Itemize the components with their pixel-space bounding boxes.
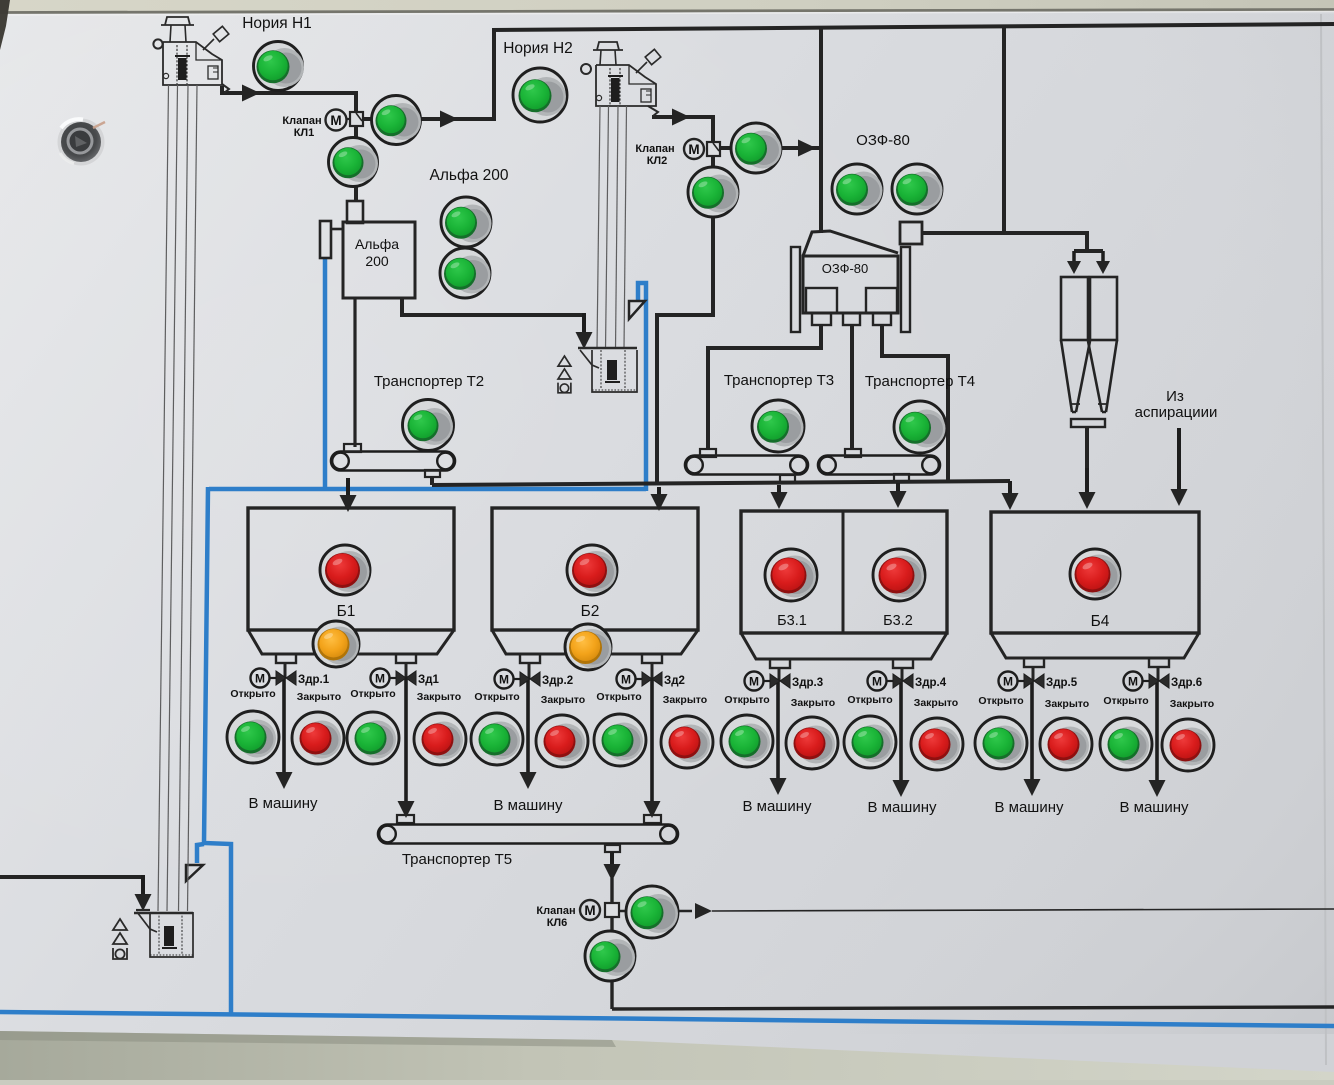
wire: KL6 line down (610, 878, 613, 1009)
svg-text:M: M (621, 673, 631, 687)
H1 elevator legs (158, 85, 197, 911)
arrow aspiration drop (1177, 428, 1181, 491)
wire: KL2 valve to OZF-80 (719, 146, 821, 150)
green lamp Транспортер Т2 (403, 400, 454, 451)
svg-text:Здр.3: Здр.3 (792, 677, 823, 689)
wire: top distribution line (492, 24, 1334, 30)
wire: KL6 to right edge (619, 910, 692, 913)
conveyor T4 (818, 456, 940, 475)
conveyor T5 (378, 825, 678, 844)
svg-text:Закрыто: Закрыто (297, 691, 341, 703)
svg-text:Зд1: Зд1 (418, 674, 440, 686)
svg-text:Б4: Б4 (1091, 613, 1110, 630)
panel lock (58, 119, 105, 166)
Alfa 200 machine box (343, 222, 415, 298)
arrow into H1 boot (141, 875, 145, 896)
wire Здр.2 to machine (528, 663, 531, 679)
arrow into bin B2 (657, 487, 661, 496)
green lamp Открыто Здр.6 (1100, 718, 1152, 770)
dark top-left corner (0, 0, 10, 50)
motor-valve Зд2 (617, 670, 685, 689)
svg-text:КЛ6: КЛ6 (547, 917, 568, 929)
bottom shelf below panel (0, 1031, 1334, 1080)
red lamp Закрыто Здр.6 (1162, 719, 1214, 771)
svg-text:M: M (1128, 675, 1138, 689)
svg-text:Закрыто: Закрыто (914, 697, 958, 709)
svg-text:Открыто: Открыто (350, 688, 395, 700)
T5 discharge (605, 845, 620, 852)
svg-text:В машину: В машину (994, 799, 1064, 816)
arrow В машину Здр.6 (1155, 681, 1159, 782)
H2 elevator legs (597, 106, 627, 349)
arrow into bin B3.2 (896, 483, 900, 493)
orange lamp bin Б2 level (565, 624, 612, 670)
red lamp bin Б4 (1070, 549, 1120, 599)
arrow В машину Здр.2 (526, 679, 530, 774)
svg-text:аспирациии: аспирациии (1135, 404, 1218, 421)
bin outlet neck Здр.1 (276, 654, 296, 663)
wire Здр.1 to machine (284, 663, 287, 678)
svg-text:В машину: В машину (248, 795, 318, 812)
wire: top line to OZF feed (819, 28, 823, 233)
blue duct horizontal run (209, 487, 646, 492)
blue stub to H1 boot chute (197, 844, 204, 863)
svg-text:Б3.1: Б3.1 (777, 613, 807, 629)
wire: Alfa-200 to Noria H2 boot (402, 298, 584, 315)
wall strip above panel (0, 0, 1334, 12)
conveyor T2 (331, 452, 455, 471)
wire: Alfa-200 to transporter T2 (353, 298, 356, 447)
red lamp Закрыто Зд1 (414, 713, 466, 765)
wire: Noria H2 discharge to KL2 (652, 117, 713, 485)
green lamp Открыто Здр.2 (471, 713, 523, 765)
red lamp Закрыто Здр.1 (292, 712, 344, 764)
bin outlet neck Зд2 (642, 654, 662, 663)
green lamp H1 line 2 (329, 138, 379, 187)
svg-text:Закрыто: Закрыто (417, 691, 461, 703)
svg-text:M: M (1003, 675, 1013, 689)
wire Здр.4 to machine (901, 668, 904, 681)
motor-valve Зд1 (371, 669, 440, 688)
motor-valve Здр.6 (1124, 672, 1203, 691)
wire: OZF outlet 2 to T4 (850, 325, 854, 449)
svg-text:Открыто: Открыто (978, 695, 1023, 707)
arrow В машину Здр.1 (282, 678, 286, 774)
arrow В машину Здр.5 (1030, 681, 1034, 781)
bin outlet neck Зд1 (396, 654, 416, 663)
blue bottom border duct (0, 1012, 1334, 1026)
svg-text:M: M (375, 672, 385, 686)
svg-text:200: 200 (365, 253, 389, 269)
chute flag at blue riser (629, 301, 645, 319)
svg-text:M: M (499, 673, 509, 687)
arrow into cyclone 2 (1101, 251, 1105, 263)
svg-text:Закрыто: Закрыто (1170, 698, 1214, 710)
svg-text:Альфа: Альфа (355, 236, 399, 252)
Alfa 200 inlet pocket (347, 201, 363, 223)
bucket elevator Noria H2 (581, 42, 661, 116)
wire Зд2 to T5 (651, 663, 654, 679)
right panel edge (1321, 14, 1326, 1065)
Noria H1 boot (134, 910, 193, 957)
svg-text:Зд2: Зд2 (664, 675, 685, 687)
svg-text:Б2: Б2 (581, 603, 600, 620)
conveyor T3 (685, 456, 808, 475)
orange lamp bin Б1 level (313, 621, 359, 667)
bin outlet neck Здр.6 (1149, 658, 1169, 667)
T5 mount feet (397, 815, 414, 823)
svg-text:ОЗФ-80: ОЗФ-80 (822, 261, 869, 276)
wire Здр.6 to machine (1157, 667, 1160, 681)
green lamp Клапан КЛ2 (731, 123, 782, 173)
wire: T2 discharge drop (430, 477, 434, 485)
green lamp Альфа 200 - 2 (440, 248, 491, 298)
green lamp Транспортер Т4 (894, 401, 946, 453)
svg-text:Б1: Б1 (337, 603, 356, 620)
green lamp Клапан КЛ6 (626, 886, 678, 938)
arrow into bin B4 (1008, 481, 1012, 495)
arrow cyclone drop (1085, 468, 1089, 494)
cyclone pair (1061, 277, 1117, 427)
wire: bottom return line (612, 1007, 1334, 1009)
svg-text:Клапан: Клапан (536, 905, 575, 917)
svg-text:M: M (330, 113, 341, 128)
bin B2 (492, 508, 698, 630)
svg-text:КЛ1: КЛ1 (294, 127, 315, 139)
svg-text:M: M (872, 675, 882, 689)
wire Здр.5 to machine (1032, 667, 1035, 681)
Alfa 200 flag link (331, 228, 343, 231)
svg-text:M: M (688, 142, 699, 157)
valve KL1: M + box (326, 110, 347, 131)
green lamp Открыто Здр.5 (975, 717, 1027, 769)
motor-valve Здр.4 (868, 672, 947, 691)
svg-text:КЛ2: КЛ2 (647, 155, 668, 167)
svg-text:Закрыто: Закрыто (663, 694, 707, 706)
svg-text:Нория Н1: Нория Н1 (242, 15, 312, 32)
svg-text:Закрыто: Закрыто (791, 697, 835, 709)
svg-text:В машину: В машину (867, 799, 937, 816)
svg-text:Закрыто: Закрыто (541, 694, 585, 706)
arrow into H2 boot (582, 313, 586, 334)
svg-text:Клапан: Клапан (282, 115, 321, 127)
Noria H2 boot (578, 348, 637, 392)
motor-valve Здр.2 (495, 670, 574, 689)
svg-text:Открыто: Открыто (474, 691, 519, 703)
green lamp Клапан КЛ1 (372, 96, 422, 145)
svg-text:Транспортер Т3: Транспортер Т3 (724, 372, 834, 389)
svg-text:Б3.2: Б3.2 (883, 613, 913, 629)
red lamp Закрыто Здр.3 (786, 717, 838, 769)
bin B4 (991, 512, 1199, 633)
svg-text:M: M (255, 672, 265, 686)
svg-text:M: M (584, 903, 595, 918)
bin outlet neck Здр.3 (770, 659, 790, 668)
svg-text:Открыто: Открыто (230, 688, 275, 700)
soft lighting overlays (0, 0, 1, 1)
valve KL2: M + box (684, 139, 704, 159)
red lamp Закрыто Здр.5 (1040, 718, 1092, 770)
motor-valve Здр.5 (999, 672, 1078, 691)
svg-text:Закрыто: Закрыто (1045, 698, 1089, 710)
svg-text:Из: Из (1166, 388, 1184, 405)
wire: OZF outlet 1 to T3 (708, 325, 821, 449)
bin outlet neck Здр.2 (520, 654, 540, 663)
arrow Зд2 to T5 (650, 679, 654, 803)
svg-text:Транспортер Т5: Транспортер Т5 (402, 851, 512, 868)
green lamp Нория Н1 (254, 42, 305, 91)
green lamp Транспортер Т3 (752, 400, 804, 452)
Alfa 200 side flag (320, 221, 331, 258)
red lamp Закрыто Зд2 (661, 716, 713, 768)
svg-text:Нория Н2: Нория Н2 (503, 40, 573, 57)
svg-text:Здр.6: Здр.6 (1171, 677, 1202, 689)
svg-text:Здр.5: Здр.5 (1046, 677, 1078, 689)
motor-valve Здр.3 (745, 672, 824, 691)
wire Зд1 to T5 (405, 663, 408, 678)
green lamp ОЗФ-80 - 2 (892, 164, 943, 214)
svg-text:Здр.4: Здр.4 (915, 677, 947, 689)
svg-text:Открыто: Открыто (847, 694, 892, 706)
motor-valve Здр.1 (251, 669, 330, 688)
arrow into cyclone 1 (1072, 251, 1076, 263)
svg-text:Альфа 200: Альфа 200 (430, 167, 509, 184)
green lamp H2 line 2 (688, 167, 739, 217)
red lamp bin Б3.1 (765, 549, 817, 601)
arrow В машину Здр.4 (899, 681, 903, 782)
svg-text:Здр.2: Здр.2 (542, 675, 573, 687)
svg-text:В машину: В машину (1119, 799, 1189, 816)
OZF-80 separator machine (791, 222, 922, 332)
red lamp bin Б2 (567, 545, 617, 595)
blue duct left loop down (204, 487, 231, 1016)
green lamp Открыто Здр.4 (844, 716, 896, 768)
chute flag at H1 boot (186, 865, 203, 881)
blue duct right riser with hook (638, 283, 646, 491)
wire: feed into Noria H1 boot from left edge (0, 877, 143, 891)
green lamp Нория Н2 (513, 68, 567, 122)
blue aspiration duct: from Alfa-200 down (323, 257, 328, 489)
svg-text:Открыто: Открыто (724, 694, 769, 706)
level sensors (558, 356, 571, 393)
green lamp ОЗФ-80 - 1 (832, 164, 883, 214)
red lamp Закрыто Здр.2 (536, 715, 588, 767)
svg-text:В машину: В машину (493, 797, 563, 814)
svg-text:M: M (749, 675, 759, 689)
green lamp Открыто Зд1 (347, 712, 399, 764)
level sensors (113, 919, 127, 959)
H2 internal belt (610, 68, 620, 105)
svg-text:ОЗФ-80: ОЗФ-80 (856, 132, 910, 149)
bin outlet neck Здр.5 (1024, 658, 1044, 667)
wire: top line right riser to cyclones (1002, 26, 1006, 233)
svg-text:Транспортер Т4: Транспортер Т4 (865, 373, 975, 390)
wire: OZF outlet 3 to header (882, 325, 948, 482)
wire: Noria H1 discharge to KL1 and down to Alfa-200 (222, 86, 356, 93)
H1 internal belt (177, 45, 187, 84)
arrow В машину Здр.3 (776, 681, 780, 780)
green lamp T5 return (585, 931, 635, 981)
bin B1 (248, 508, 454, 630)
red lamp bin Б3.2 (873, 549, 925, 601)
green lamp Открыто Здр.1 (227, 711, 279, 763)
valve KL6 (580, 900, 600, 920)
svg-text:Открыто: Открыто (1103, 695, 1148, 707)
svg-text:Здр.1: Здр.1 (298, 674, 330, 686)
svg-text:Клапан: Клапан (635, 143, 674, 155)
arrow Зд1 to T5 (404, 678, 408, 803)
arrow into bin B1 (346, 478, 350, 497)
svg-text:Открыто: Открыто (596, 691, 641, 703)
bin B3 (741, 511, 947, 633)
red lamp bin Б1 (320, 545, 370, 595)
arrow into bin B3.1 (777, 485, 781, 494)
bucket elevator Noria H1 (153, 17, 229, 93)
green lamp Открыто Здр.3 (721, 715, 773, 767)
wire: KL1 valve to Noria H2 frame (362, 30, 494, 119)
green lamp Открыто Зд2 (594, 714, 646, 766)
red lamp Закрыто Здр.4 (911, 718, 963, 770)
wire Здр.3 to machine (778, 668, 781, 681)
wire: OZF square to cyclones (922, 233, 1087, 251)
green lamp Альфа 200 - 1 (441, 197, 492, 247)
svg-text:Транспортер Т2: Транспортер Т2 (374, 373, 484, 390)
arrow T5 to KL6 (610, 852, 614, 866)
svg-text:В машину: В машину (742, 798, 812, 815)
bin outlet neck Здр.4 (893, 659, 913, 668)
panel top edge shadow line (0, 10, 1334, 13)
wire: bin distribution header (432, 481, 1010, 485)
